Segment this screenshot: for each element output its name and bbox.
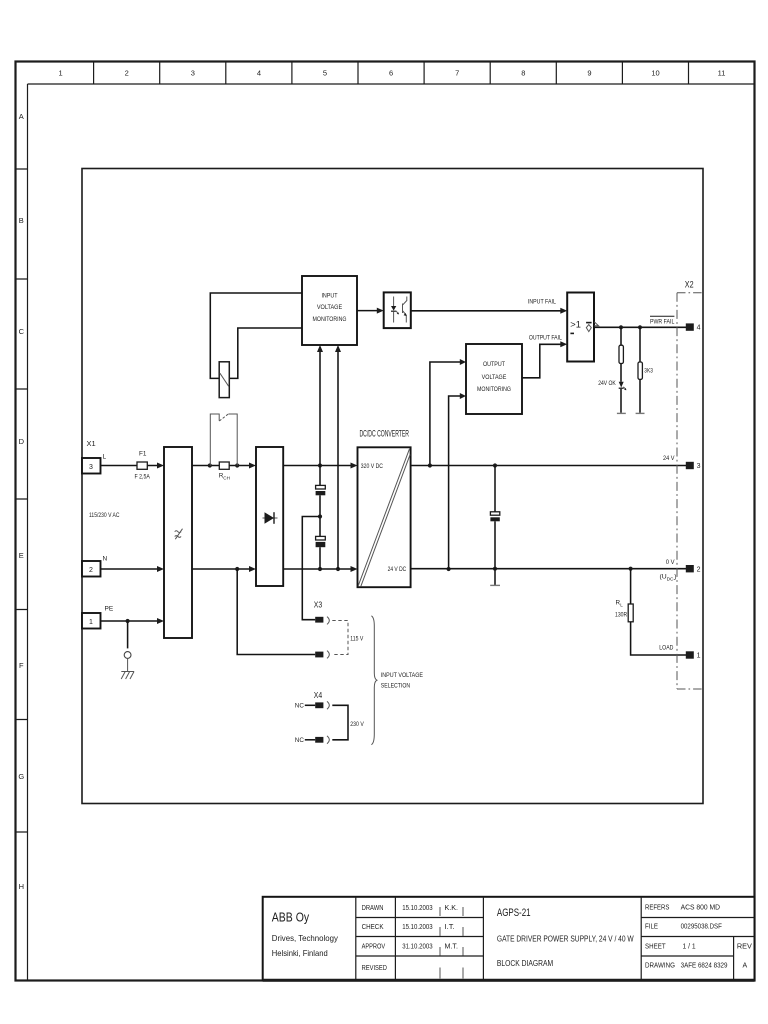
rectifier block [256,447,283,586]
RL wire to X2 pin 1 [631,622,687,655]
chassis ground symbol [121,672,134,680]
svg-text:N: N [103,556,108,563]
svg-text:MONITORING: MONITORING [477,386,511,393]
OUTPUT FAIL wire OVM to gate [522,344,561,378]
row letters A-H [18,112,24,891]
svg-text:230 V: 230 V [350,721,364,728]
filter symbol (approx with slash) [175,529,183,540]
svg-text:Drives, Technology: Drives, Technology [272,933,339,943]
fuse F1 [137,462,147,469]
junction dot return bus at cap chain [318,567,322,571]
svg-text:8: 8 [521,69,525,78]
output cap wire upper [494,466,496,512]
X2 pin 4 terminal [686,323,694,330]
X3 pin 2 terminal [315,652,323,658]
resistor (LED series) [619,345,623,363]
ground bar (3K3 branch) [636,412,645,414]
svg-text:REVISED: REVISED [362,965,387,972]
ground bar (LED branch) [617,412,626,414]
LED branch wire lower [620,389,622,413]
arrowhead into gate (output fail) [560,341,567,347]
svg-text:PWR FAIL: PWR FAIL [650,318,675,325]
svg-text:3: 3 [89,464,93,471]
arrowhead into gate (input fail) [560,308,567,314]
charging resistor Rch [219,462,229,469]
junction dot N to X3 [235,567,239,571]
doubler capacitor C1 [316,485,326,489]
X2 pin 3 terminal [686,462,694,469]
svg-text:ACS 800 MD: ACS 800 MD [681,905,720,912]
output capacitor C3 [490,512,499,515]
junction dot 24V at OVM sense [428,463,432,467]
svg-text:X3: X3 [314,601,322,610]
junction dot (3K3 branch) [638,325,642,329]
X2 pin 1 terminal [686,651,694,658]
svg-text:DRAWING: DRAWING [645,963,675,970]
svg-text:F1: F1 [139,451,147,458]
svg-text:GATE DRIVER POWER SUPPLY, 24 V: GATE DRIVER POWER SUPPLY, 24 V / 40 W [497,934,634,944]
junction dot right of Rch [235,463,239,467]
arrowhead up into IVM box (2) [335,345,341,352]
svg-text:1: 1 [89,619,93,626]
svg-text:FILE: FILE [645,923,658,930]
OR gate U3 [567,293,594,362]
gate open-collector diamond [586,325,591,332]
junction dot left of Rch [208,463,212,467]
top reference band line [28,83,755,85]
arrowhead into optocoupler [377,308,384,314]
gate output edge triangle [594,322,598,326]
svg-text:F: F [19,661,24,670]
svg-text:3: 3 [191,69,195,78]
column numbers 1-11 [59,69,726,78]
arrowhead up into IVM box (1) [317,345,323,352]
svg-text:31.10.2003: 31.10.2003 [402,944,432,951]
svg-text:10: 10 [651,69,659,78]
C1 to midpoint [319,495,321,536]
relay coil K1 [219,362,229,398]
output voltage monitoring block [466,344,522,414]
svg-text:M.T.: M.T. [445,944,459,951]
svg-text:AGPS-21: AGPS-21 [497,907,531,919]
svg-text:4: 4 [697,325,701,332]
arrowhead into DC/DC (bottom) [351,566,358,572]
svg-text:2: 2 [697,566,701,573]
DC/DC diagonal double line [358,449,410,587]
wire PE from X1 to filter [101,620,159,622]
title block outer [263,897,755,981]
svg-text:I.T.: I.T. [445,924,455,931]
midpoint tap wire to X3 pin 1 [302,517,320,620]
svg-text:3AFE 6824 8329: 3AFE 6824 8329 [681,963,728,970]
svg-text:DRAWN: DRAWN [362,905,384,912]
svg-text:3: 3 [697,463,701,470]
wire N from X1 to filter [101,568,159,570]
midpoint junction dot [318,514,322,518]
wire N down to X3 pin 2 [237,569,315,655]
svg-text:CHECK: CHECK [362,924,384,931]
opto LED cathode lead [393,312,395,323]
arrowhead into DC/DC (top) [351,463,358,469]
svg-text:LOAD: LOAD [659,645,673,652]
svg-text:X4: X4 [314,691,323,700]
junction dot (output cap) [493,463,497,467]
svg-text:SELECTION: SELECTION [381,682,410,689]
DC/DC converter block U1 [358,447,411,587]
arrowhead into filter (PE) [157,618,164,624]
svg-text:): ) [674,574,676,581]
title block horizontal dividers [356,918,755,957]
arrowhead into filter (N) [157,566,164,572]
wire IVM to optocoupler [357,310,378,312]
X1 terminal 3 [82,458,101,474]
load resistor RL [628,604,633,622]
arrowhead into OVM (2) [460,393,466,399]
svg-text:NC: NC [295,703,305,710]
svg-text:INPUT VOLTAGE: INPUT VOLTAGE [381,672,424,679]
opto LED [391,306,396,311]
X1 terminal 2 [82,561,101,577]
svg-text:B: B [19,216,24,225]
svg-text:6: 6 [389,69,393,78]
X1 terminal 1 [82,613,101,629]
svg-text:OUTPUT FAIL: OUTPUT FAIL [529,334,562,341]
svg-text:VOLTAGE: VOLTAGE [482,374,507,381]
X3 pin 1 terminal [315,617,323,623]
X3 pin 1 contact arc [327,617,329,625]
X4 pin 2 terminal [315,737,323,743]
svg-text:MONITORING: MONITORING [313,316,347,323]
svg-text:A: A [743,963,748,970]
selection brace [371,616,377,745]
svg-text:7: 7 [455,69,459,78]
junction dot (LED branch) [619,325,623,329]
output cap wire lower [494,521,496,585]
arrowhead into rectifier (N) [249,566,256,572]
bypass contact blade (dashed) [219,414,228,421]
IVM sense wire 1 (to +320V) [319,347,321,466]
svg-text:L: L [103,454,107,461]
wire IVM to relay coil (left) [210,293,302,378]
svg-text:NC: NC [295,737,305,744]
24V wire DC/DC to X2 pin 3 [411,465,687,467]
X3 pin 2 contact arc [327,651,329,659]
C2 to return bus [319,547,321,569]
wire L from X1 to filter [101,465,159,467]
X4 jumper 230V (solid) [332,705,348,740]
relay coil diagonal [220,373,229,386]
svg-text:5: 5 [323,69,327,78]
svg-text:INPUT: INPUT [321,293,337,300]
junction dot return bus at IVM sense [336,567,340,571]
wire IVM to relay coil (right) [229,328,302,378]
X2 boundary dash-dot vertical [676,293,678,689]
LED emission arrow [623,387,626,390]
svg-text:APPROV: APPROV [362,944,386,951]
svg-text:E: E [19,551,24,560]
earth circle [124,652,131,659]
arrowhead into OVM (1) [460,359,466,365]
svg-text:2: 2 [125,69,129,78]
3K3 branch wire upper [639,327,641,362]
arrowhead into filter (L) [157,463,164,469]
svg-text:>1: >1 [570,320,581,330]
svg-text:24 V: 24 V [663,455,675,462]
X3 jumper 115V (dashed) [332,621,348,655]
svg-text:115 V: 115 V [350,635,364,642]
doubler capacitor C1 top wire [319,466,321,486]
arrowhead into rectifier (L) [249,463,256,469]
wire N filter to rectifier [192,568,250,570]
svg-text:320 V DC: 320 V DC [361,463,383,470]
svg-text:X2: X2 [685,279,694,289]
PE earth stub [127,621,129,648]
svg-text:DC/DC CONVERTER: DC/DC CONVERTER [360,428,410,438]
resistor 3K3 [638,362,642,379]
earth stub 2 [127,659,129,672]
gate output polarity dash [586,322,592,324]
wire L filter to rectifier [192,465,250,467]
junction dot 0V at OVM sense [447,567,451,571]
svg-text:0 V: 0 V [666,559,675,566]
LED branch wire middle [620,364,622,382]
IVM sense wire 2 (to return) [337,347,339,569]
input voltage monitoring block [302,276,357,345]
svg-text:L: L [620,603,623,608]
svg-text:11: 11 [718,69,726,78]
svg-text:1 / 1: 1 / 1 [683,944,696,951]
svg-text:24 V DC: 24 V DC [388,566,407,573]
svg-text:15.10.2003: 15.10.2003 [402,905,432,912]
rectifier diode [265,512,275,524]
svg-text:X1: X1 [87,439,96,448]
svg-text:1: 1 [59,69,63,78]
X4 pin 2 contact arc [327,736,329,744]
junction dot 320V bus at cap chain [318,463,322,467]
svg-text:REFERS: REFERS [645,905,670,912]
svg-text:D: D [19,437,25,446]
svg-text:SHEET: SHEET [645,944,666,951]
svg-text:00295038.DSF: 00295038.DSF [681,923,722,930]
bypass contact right pole [228,414,237,466]
svg-text:K.K.: K.K. [445,905,459,912]
svg-text:OUTPUT: OUTPUT [483,361,505,368]
left band row dividers [16,169,28,832]
svg-text:BLOCK DIAGRAM: BLOCK DIAGRAM [497,958,553,968]
left reference band line [27,84,29,981]
X2 boundary dash-dot bottom [677,688,703,690]
OVM input wire 2 (0V sense) [449,396,461,569]
top band column dividers [94,62,689,85]
optocoupler U2 [384,292,411,328]
svg-text:CH: CH [223,476,230,481]
3K3 branch wire lower [639,379,641,412]
opto phototransistor [403,297,407,323]
PWR FAIL wire gate to X2 pin 4 [594,326,687,328]
svg-text:1: 1 [697,653,701,660]
junction dot on PE wire [126,619,130,623]
junction dot (RL branch) [629,567,633,571]
wire return rectifier to DC/DC [283,568,351,570]
svg-text:3K3: 3K3 [644,368,653,375]
svg-text:9: 9 [587,69,591,78]
svg-text:4: 4 [257,69,261,78]
X2 boundary dash-dot top [677,292,703,294]
bypass contact left pole [210,414,219,466]
OVM input wire 1 (24V sense) [430,362,461,466]
ground bar (output cap) [490,584,500,586]
svg-text:PE: PE [105,606,114,613]
X4 pin 1 terminal [315,702,323,708]
X4 pin 2 lead [305,739,315,741]
svg-text:2: 2 [89,567,93,574]
svg-text:24V OK: 24V OK [598,380,616,387]
INPUT FAIL wire opto to gate [411,310,561,312]
svg-text:VOLTAGE: VOLTAGE [317,304,342,311]
svg-text:115/230 V AC: 115/230 V AC [89,512,120,519]
inner drawing frame [82,169,703,804]
RL branch wire upper [630,569,632,604]
X2 pin 2 terminal [686,565,694,572]
svg-text:130R: 130R [615,612,627,619]
svg-text:F 2,5A: F 2,5A [135,474,151,481]
LED 24V OK [619,382,624,388]
junction dot cap on 0V [493,567,497,571]
X4 pin 1 contact arc [327,701,329,709]
LED branch wire upper [620,327,622,345]
svg-text:G: G [18,772,24,781]
svg-text:ABB Oy: ABB Oy [272,910,310,925]
svg-text:INPUT FAIL: INPUT FAIL [528,299,556,306]
mains filter block [164,447,192,638]
svg-text:H: H [19,882,24,891]
svg-text:Helsinki, Finland: Helsinki, Finland [272,948,328,958]
title block thick bottom edge [263,979,755,982]
X4 pin 1 lead [305,704,315,706]
signature cell half-ticks [440,907,463,979]
svg-text:15.10.2003: 15.10.2003 [402,924,432,931]
opto light arrow [396,311,399,314]
svg-text:A: A [19,112,24,121]
opto LED anode lead [393,297,395,307]
0V wire DC/DC to X2 pin 2 [411,568,687,570]
svg-text:REV: REV [737,944,752,951]
rectifier diode lead [263,517,278,519]
wire +320V rectifier to DC/DC [283,465,351,467]
doubler capacitor C2 [316,536,326,540]
title block vertical dividers [356,897,734,981]
svg-text:C: C [19,327,25,336]
